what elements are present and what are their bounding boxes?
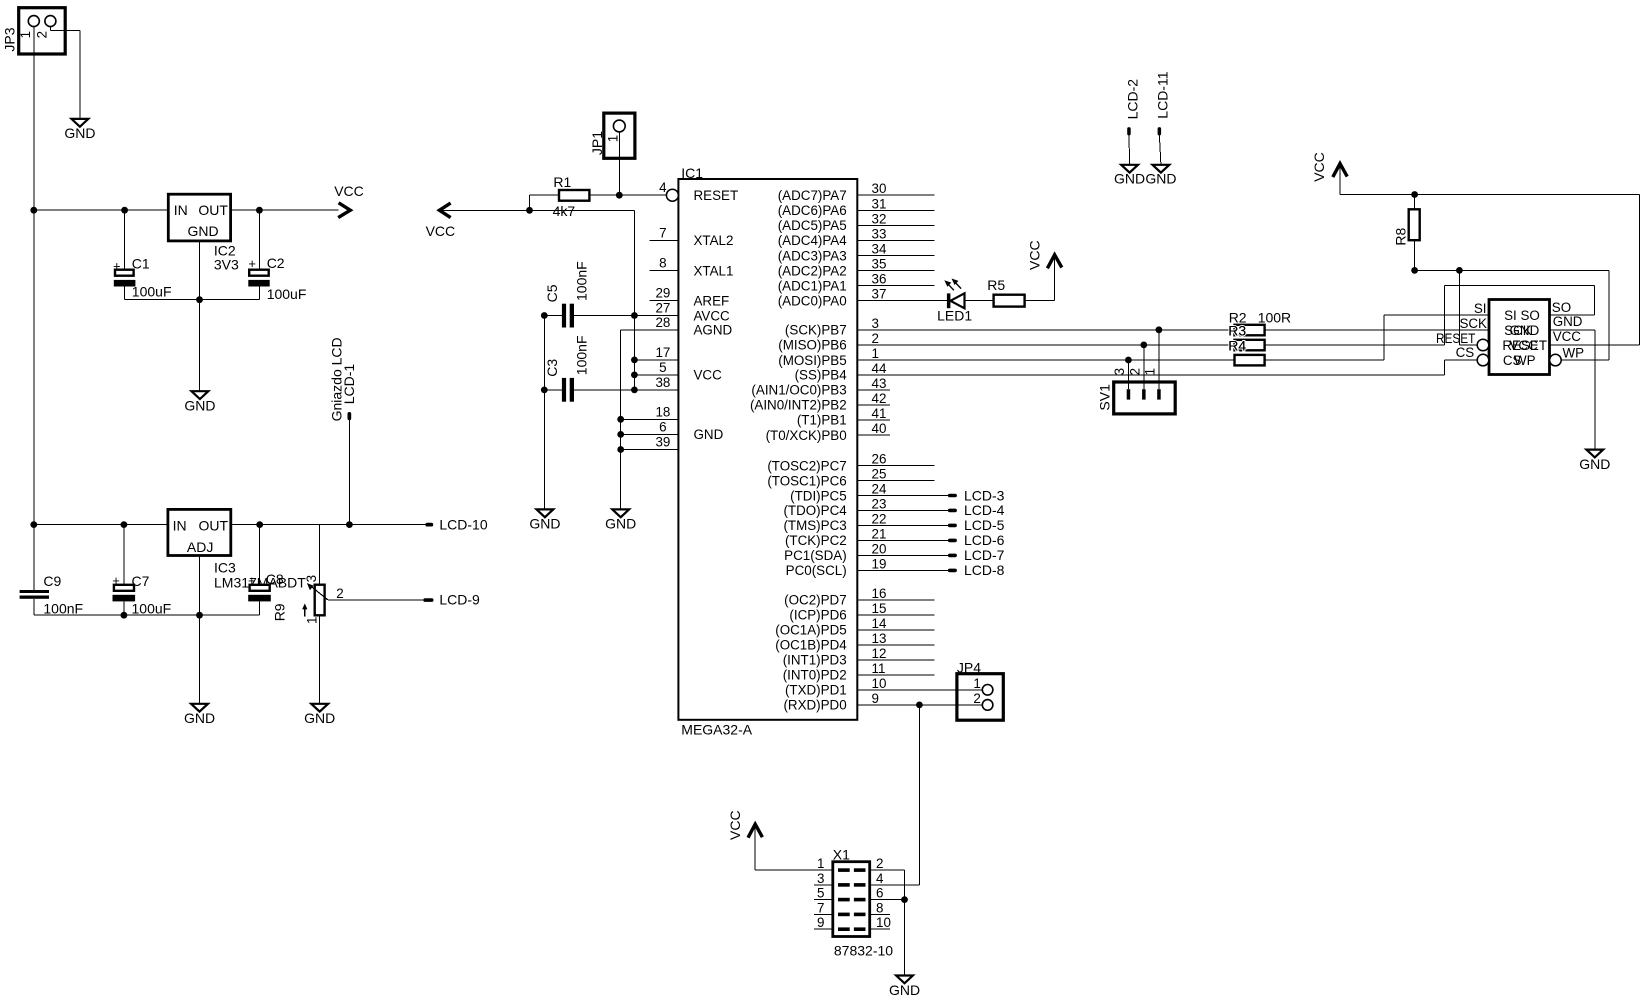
IC1 pin 33 (ADC4)PA4 xyxy=(778,226,935,248)
supply symbol VCC (left arrow near R1) xyxy=(426,203,456,239)
flash RESET bubble xyxy=(1477,339,1489,351)
connector X1 87832-10 xyxy=(817,847,893,959)
svg-text:33: 33 xyxy=(872,226,887,241)
ground below C3/C5 xyxy=(529,509,560,531)
svg-text:R1: R1 xyxy=(553,174,571,190)
capacitor C8 100uF xyxy=(248,571,284,601)
wire C7 bottom xyxy=(123,601,125,615)
svg-text:2: 2 xyxy=(336,586,343,601)
svg-text:9: 9 xyxy=(817,915,824,930)
ground below X1 xyxy=(889,976,920,998)
resistor R2 100R xyxy=(1229,310,1291,336)
svg-text:5: 5 xyxy=(817,886,824,901)
svg-text:LCD-11: LCD-11 xyxy=(1155,71,1171,118)
svg-text:R5: R5 xyxy=(987,277,1005,293)
flash memory U (overlapped symbols) xyxy=(1436,300,1584,375)
wire R5 to VCC xyxy=(1025,254,1055,300)
svg-text:19: 19 xyxy=(872,556,887,571)
wire SV1 pin1 xyxy=(1158,330,1160,389)
wire VCC to R1 junction xyxy=(440,209,635,211)
IC1 pin 7 XTAL2 xyxy=(649,225,733,248)
svg-text:SI SO: SI SO xyxy=(1504,308,1540,323)
node junction rail2 left xyxy=(30,521,37,528)
IC1 pin 37 (ADC0)PA0 xyxy=(778,287,947,309)
ground below LCD-2 xyxy=(1114,165,1145,187)
wire LCD-1 vertical xyxy=(348,420,350,525)
svg-text:XTAL2: XTAL2 xyxy=(694,233,734,248)
terminal LCD-4 xyxy=(948,502,1005,518)
node junction R8 top xyxy=(1411,191,1418,198)
IC1 pin 42 (AIN0/INT2)PB2 xyxy=(750,391,890,413)
wire C7 top xyxy=(123,525,125,585)
svg-text:100uF: 100uF xyxy=(132,284,172,300)
svg-text:(ICP)PD6: (ICP)PD6 xyxy=(789,608,846,623)
svg-text:23: 23 xyxy=(872,496,887,511)
wire LCD-11 to gnd xyxy=(1159,136,1161,165)
terminal LCD-8 xyxy=(948,562,1005,578)
svg-text:1: 1 xyxy=(872,346,879,361)
svg-text:(INT1)PD3: (INT1)PD3 xyxy=(783,653,847,668)
svg-text:31: 31 xyxy=(872,196,887,211)
svg-text:3: 3 xyxy=(304,575,319,582)
svg-text:35: 35 xyxy=(872,257,887,272)
connector JP3 xyxy=(2,8,66,54)
node junction R1 leg xyxy=(526,207,533,214)
svg-text:4: 4 xyxy=(659,180,667,195)
svg-text:(ADC2)PA2: (ADC2)PA2 xyxy=(778,263,847,278)
svg-text:(TMS)PC3: (TMS)PC3 xyxy=(783,518,846,533)
flash WP bubble xyxy=(1550,354,1562,366)
svg-text:100uF: 100uF xyxy=(267,286,307,302)
svg-text:AREF: AREF xyxy=(694,294,730,309)
svg-text:6: 6 xyxy=(659,419,666,434)
wire LCD-2 to gnd xyxy=(1128,136,1131,165)
IC1 pin 25 (TOSC1)PC6 xyxy=(767,467,934,489)
svg-text:24: 24 xyxy=(872,482,887,497)
svg-text:(SCK)PB7: (SCK)PB7 xyxy=(785,323,847,338)
svg-text:RESET: RESET xyxy=(1436,331,1475,346)
IC1 pin 28 AGND xyxy=(655,315,732,338)
svg-text:28: 28 xyxy=(655,315,670,330)
wire C8 bottom to rail3 xyxy=(259,601,261,615)
svg-text:X1: X1 xyxy=(833,847,850,863)
voltage regulator IC3 LM317MABDT xyxy=(168,509,306,590)
node junction GND pin6 xyxy=(617,431,624,438)
svg-text:LCD-4: LCD-4 xyxy=(964,502,1005,518)
svg-text:(ADC7)PA7: (ADC7)PA7 xyxy=(778,188,847,203)
svg-text:WP: WP xyxy=(1563,346,1585,361)
svg-text:SI: SI xyxy=(1474,301,1487,316)
svg-text:SV1: SV1 xyxy=(1096,384,1112,411)
capacitor C7 100uF xyxy=(112,573,171,617)
svg-text:41: 41 xyxy=(872,406,887,421)
svg-text:GND: GND xyxy=(304,710,335,726)
terminal LCD-7 xyxy=(948,547,1005,563)
node junction C3 left xyxy=(541,387,548,394)
IC1 pin 27 AVCC xyxy=(655,301,730,324)
svg-text:GND: GND xyxy=(1114,171,1145,187)
IC1 pin 2 (MISO)PB6 xyxy=(778,331,1234,353)
IC1 pin 24 (TDI)PC5 xyxy=(790,482,948,504)
svg-text:C8: C8 xyxy=(266,571,284,587)
svg-text:ADJ: ADJ xyxy=(187,539,213,555)
svg-text:AVCC: AVCC xyxy=(694,308,731,323)
svg-text:1: 1 xyxy=(605,135,620,142)
svg-text:C3: C3 xyxy=(544,359,560,377)
wire SCK (PB7) xyxy=(857,329,1234,331)
wire C1 bottom to gnd rail xyxy=(125,287,200,300)
wire X1 pin2 to gnd xyxy=(870,870,905,975)
svg-text:(OC1B)PD4: (OC1B)PD4 xyxy=(775,638,847,653)
IC1 pin 1 (MOSI)PB5 xyxy=(778,346,1234,368)
svg-text:25: 25 xyxy=(872,467,887,482)
IC1 pin 35 (ADC2)PA2 xyxy=(778,257,935,279)
svg-text:22: 22 xyxy=(872,511,887,526)
svg-text:RESET: RESET xyxy=(694,188,739,203)
node junction AVCC xyxy=(631,312,638,319)
terminal LCD-5 xyxy=(948,517,1005,533)
wire VCC top rail xyxy=(1340,195,1639,346)
svg-text:IC3: IC3 xyxy=(214,559,236,575)
svg-text:(ADC5)PA5: (ADC5)PA5 xyxy=(778,218,847,233)
svg-text:LCD-9: LCD-9 xyxy=(439,592,480,608)
svg-text:VCC: VCC xyxy=(1026,240,1042,270)
svg-text:LCD-6: LCD-6 xyxy=(964,532,1005,548)
svg-text:(TXD)PD1: (TXD)PD1 xyxy=(785,683,847,698)
svg-text:GND: GND xyxy=(188,223,219,239)
svg-text:(TOSC1)PC6: (TOSC1)PC6 xyxy=(767,473,846,488)
resistor R1 4k7 xyxy=(553,174,590,219)
IC1 pin 38 (left) xyxy=(655,375,670,390)
wire RESET pullup xyxy=(1459,270,1477,345)
svg-text:C5: C5 xyxy=(544,284,560,302)
svg-text:GND: GND xyxy=(1553,314,1583,329)
voltage regulator IC2 3V3 xyxy=(168,194,239,273)
svg-text:IN: IN xyxy=(174,202,188,218)
svg-text:7: 7 xyxy=(659,225,666,240)
svg-text:(T0/XCK)PB0: (T0/XCK)PB0 xyxy=(766,428,847,443)
wire X1 pin6 xyxy=(870,899,905,901)
IC1 pin 22 (TMS)PC3 xyxy=(783,511,947,533)
terminal LCD-9 xyxy=(423,592,480,608)
IC1 pin 36 (ADC1)PA1 xyxy=(778,272,935,294)
wire JP1 down to RESET xyxy=(618,132,620,195)
svg-text:GND: GND xyxy=(605,516,636,532)
node junction LCD-1/rail2 xyxy=(346,521,353,528)
svg-text:VCC: VCC xyxy=(1510,338,1539,353)
svg-text:GND: GND xyxy=(1579,456,1610,472)
wire JP3 pin1 down to VCC-in rail xyxy=(33,27,35,210)
svg-text:LCD-8: LCD-8 xyxy=(964,562,1005,578)
IC1 pin 12 (INT1)PD3 xyxy=(783,646,935,668)
node junction JP1/RESET xyxy=(616,192,623,199)
svg-text:3V3: 3V3 xyxy=(214,257,239,273)
node junction SV1-1/SCK xyxy=(1156,326,1163,333)
svg-text:21: 21 xyxy=(872,526,887,541)
terminal LCD-11 xyxy=(1155,71,1171,135)
svg-text:R4: R4 xyxy=(1228,338,1246,354)
wire C8 top xyxy=(259,525,261,585)
svg-text:R3: R3 xyxy=(1228,322,1246,338)
svg-text:VCC: VCC xyxy=(694,368,723,383)
svg-text:GND: GND xyxy=(64,125,95,141)
svg-text:JP1: JP1 xyxy=(589,131,605,155)
microcontroller IC1 MEGA32-A xyxy=(678,165,857,737)
node junction RXD/X1 xyxy=(916,702,923,709)
svg-text:2: 2 xyxy=(872,331,879,346)
IC1 pin 5 VCC xyxy=(634,360,722,383)
svg-text:Gniazdo LCD: Gniazdo LCD xyxy=(328,337,344,421)
svg-text:GND: GND xyxy=(529,516,560,532)
ground below R9 xyxy=(304,704,335,726)
svg-text:39: 39 xyxy=(655,435,670,450)
svg-text:(OC1A)PD5: (OC1A)PD5 xyxy=(775,623,846,638)
IC1 pin 9 (RXD)PD0 xyxy=(783,691,982,713)
IC1 pin 6 GND xyxy=(621,419,724,442)
capacitor C3 100nF xyxy=(544,335,678,401)
IC1 pin 13 (OC1B)PD4 xyxy=(775,631,934,653)
svg-text:12: 12 xyxy=(872,646,887,661)
svg-text:AGND: AGND xyxy=(694,323,733,338)
svg-text:(OC2)PD7: (OC2)PD7 xyxy=(784,593,847,608)
svg-text:14: 14 xyxy=(872,616,887,631)
svg-text:LCD-7: LCD-7 xyxy=(964,547,1005,563)
svg-text:7: 7 xyxy=(817,900,824,915)
svg-text:SO: SO xyxy=(1552,300,1571,315)
wire R9 wiper to LCD-9 xyxy=(328,599,423,601)
svg-text:100nF: 100nF xyxy=(574,335,590,375)
node junction VCC pin38 xyxy=(631,387,638,394)
svg-text:2: 2 xyxy=(1128,368,1143,375)
svg-text:(MOSI)PB5: (MOSI)PB5 xyxy=(778,353,846,368)
wire VCC vertical to AVCC/VCC pins xyxy=(633,210,635,390)
svg-text:(TDO)PC4: (TDO)PC4 xyxy=(783,503,847,518)
svg-text:CS: CS xyxy=(1456,345,1475,360)
svg-text:40: 40 xyxy=(872,421,887,436)
svg-text:87832-10: 87832-10 xyxy=(834,943,893,959)
svg-text:IC1: IC1 xyxy=(681,165,703,181)
svg-text:2: 2 xyxy=(973,691,980,706)
svg-text:2: 2 xyxy=(876,856,883,871)
wire SS to CS xyxy=(1445,360,1478,375)
IC1 pin 40 (T0/XCK)PB0 xyxy=(766,421,890,443)
wire SV1 pin2 xyxy=(1143,345,1145,389)
svg-text:29: 29 xyxy=(655,286,670,301)
svg-text:3: 3 xyxy=(817,871,824,886)
svg-text:(ADC4)PA4: (ADC4)PA4 xyxy=(778,233,848,248)
svg-text:100R: 100R xyxy=(1258,310,1291,326)
node junction ADJ/rail3 xyxy=(196,612,203,619)
resistor R5 xyxy=(987,277,1024,307)
connector JP4 xyxy=(957,659,1003,720)
svg-text:30: 30 xyxy=(872,181,887,196)
node junction VCC pin5 xyxy=(631,372,638,379)
svg-text:LCD-3: LCD-3 xyxy=(964,487,1005,503)
svg-text:1: 1 xyxy=(18,31,33,38)
wire gnd rail to C2 bottom xyxy=(200,287,260,300)
wire JP3 pin1 down to LCD rail xyxy=(33,210,35,524)
supply symbol VCC (X1) xyxy=(727,810,762,870)
node junction VCC pin17 xyxy=(631,357,638,364)
svg-text:1: 1 xyxy=(305,617,320,624)
svg-text:10: 10 xyxy=(872,676,887,691)
svg-text:GND: GND xyxy=(1510,323,1540,338)
svg-text:IN: IN xyxy=(173,517,187,533)
terminal LCD-10 xyxy=(425,517,487,533)
IC1 pin 20 PC1(SDA) xyxy=(784,541,948,563)
IC1 pin 10 (TXD)PD1 xyxy=(785,676,982,698)
wire C9 top xyxy=(33,525,35,590)
terminal LCD-2 xyxy=(1124,79,1140,136)
IC1 pin 4 RESET xyxy=(659,180,738,203)
wire R8 pullup rail xyxy=(1415,270,1609,360)
svg-text:R9: R9 xyxy=(272,603,288,621)
node junction RESET branch xyxy=(1456,267,1463,274)
IC1 pin 41 (T1)PB1 xyxy=(797,406,890,428)
svg-text:(ADC0)PA0: (ADC0)PA0 xyxy=(778,294,847,309)
node junction SV1-3/MOSI xyxy=(1125,357,1132,364)
ground below JP3 xyxy=(64,119,95,141)
svg-text:4k7: 4k7 xyxy=(553,203,576,219)
node junction C8/rail2 xyxy=(256,521,263,528)
wire rail2 down to R9 xyxy=(319,525,321,585)
ground below IC2 xyxy=(184,391,215,413)
svg-text:(SS)PB4: (SS)PB4 xyxy=(795,368,848,383)
wire C1 top xyxy=(124,210,126,270)
svg-text:(TOSC2)PC7: (TOSC2)PC7 xyxy=(767,458,846,473)
svg-text:JP4: JP4 xyxy=(957,659,981,675)
svg-text:4: 4 xyxy=(876,871,884,886)
svg-text:MEGA32-A: MEGA32-A xyxy=(681,722,752,738)
svg-text:WP: WP xyxy=(1514,353,1536,368)
IC1 pin 23 (TDO)PC4 xyxy=(783,496,947,518)
svg-text:44: 44 xyxy=(872,361,887,376)
wire C5-C3 vertical xyxy=(543,316,545,390)
IC1 pin 16 (OC2)PD7 xyxy=(784,586,934,608)
svg-text:100nF: 100nF xyxy=(574,261,590,301)
svg-text:43: 43 xyxy=(872,376,887,391)
IC1 pin 11 (INT0)PD2 xyxy=(783,661,935,683)
svg-text:VCC: VCC xyxy=(1553,329,1582,344)
wire MOSI (PB5) xyxy=(857,359,1234,361)
svg-text:10: 10 xyxy=(876,915,891,930)
node junction X1 pin6/gnd xyxy=(901,896,908,903)
IC1 pin 34 (ADC3)PA3 xyxy=(778,242,935,264)
svg-text:XTAL1: XTAL1 xyxy=(694,263,734,278)
wire IC2 OUT to VCC arrow xyxy=(231,209,339,211)
svg-text:(TCK)PC2: (TCK)PC2 xyxy=(785,533,847,548)
svg-text:GND: GND xyxy=(184,398,215,414)
svg-text:1: 1 xyxy=(1143,368,1158,375)
IC1 pin 18 (left) xyxy=(621,404,679,419)
node junction C7/rail2 xyxy=(121,521,128,528)
node junction C1/rail1 xyxy=(121,207,128,214)
node junction JP3/rail1 xyxy=(30,207,37,214)
svg-text:100uF: 100uF xyxy=(132,601,172,617)
wire JP3 pin2 to GND xyxy=(50,27,80,119)
wire RXD down to X1 pin4 xyxy=(870,705,920,885)
svg-text:36: 36 xyxy=(872,272,887,287)
ground below LCD-11 xyxy=(1145,165,1176,187)
resistor R4 xyxy=(1228,338,1264,366)
wire SCK to flash xyxy=(1265,329,1489,331)
svg-text:VCC: VCC xyxy=(426,223,456,239)
svg-text:(RXD)PD0: (RXD)PD0 xyxy=(783,698,846,713)
wire C9 bottom to rail3 xyxy=(34,599,124,615)
ground below flash xyxy=(1579,450,1610,472)
wire MOSI to SI xyxy=(1265,315,1489,360)
trimmer R9 xyxy=(272,575,344,624)
svg-text:6: 6 xyxy=(876,886,883,901)
IC1 pin 32 (ADC5)PA5 xyxy=(778,211,935,233)
svg-text:32: 32 xyxy=(872,211,887,226)
X1 left stubs xyxy=(814,885,833,929)
svg-text:C2: C2 xyxy=(267,255,285,271)
svg-text:(ADC1)PA1: (ADC1)PA1 xyxy=(778,278,847,293)
wire R9 bottom to ground xyxy=(319,615,321,704)
IC1 RESET bubble xyxy=(666,189,678,201)
terminal LCD-6 xyxy=(948,532,1005,548)
svg-text:OUT: OUT xyxy=(198,202,228,218)
node junction SV1-2/MISO xyxy=(1140,342,1147,349)
ground below IC3 ADJ xyxy=(184,704,215,726)
svg-text:(MISO)PB6: (MISO)PB6 xyxy=(778,338,846,353)
IC1 pin 3 (SCK)PB7 xyxy=(785,316,1235,338)
svg-text:8: 8 xyxy=(659,256,666,271)
capacitor C2 100uF xyxy=(248,255,306,302)
wire flash GND pin xyxy=(1550,330,1595,450)
IC1 pin 21 (TCK)PC2 xyxy=(785,526,948,548)
IC1 pin 26 (TOSC2)PC7 xyxy=(767,452,934,474)
svg-text:2: 2 xyxy=(34,31,49,38)
wire R1 left leg xyxy=(530,195,560,210)
node junction C7/rail3 xyxy=(121,612,128,619)
capacitor C9 100nF xyxy=(20,573,84,617)
node junction C2/rail1 xyxy=(256,207,263,214)
svg-text:3: 3 xyxy=(872,316,879,331)
svg-text:3: 3 xyxy=(1112,368,1127,375)
svg-text:1: 1 xyxy=(817,856,824,871)
IC1 pin 14 (OC1A)PD5 xyxy=(775,616,934,638)
svg-text:PC1(SDA): PC1(SDA) xyxy=(784,548,847,563)
wire VCC to X1 pin1 xyxy=(755,869,833,871)
resistor R8 xyxy=(1392,195,1419,271)
svg-text:100nF: 100nF xyxy=(43,601,83,617)
svg-text:SCK: SCK xyxy=(1459,316,1487,331)
svg-text:LCD-10: LCD-10 xyxy=(439,517,487,533)
terminal LCD-1 (Gniazdo LCD) xyxy=(328,337,357,421)
svg-text:42: 42 xyxy=(872,391,887,406)
terminal LCD-3 xyxy=(948,487,1005,503)
wire SV1 pin3 xyxy=(1127,360,1129,389)
svg-text:LCD-5: LCD-5 xyxy=(964,517,1005,533)
svg-text:(ADC3)PA3: (ADC3)PA3 xyxy=(778,248,847,263)
wire SS (PB4) xyxy=(857,374,1444,376)
svg-text:OUT: OUT xyxy=(198,517,228,533)
svg-text:1: 1 xyxy=(973,676,980,691)
wire IC2 GND down to ground xyxy=(199,300,201,392)
IC1 pin 29 AREF xyxy=(649,286,729,309)
IC1 pin 17 (left) xyxy=(634,345,678,360)
supply symbol VCC (3V3 rail, right arrow) xyxy=(334,183,364,217)
IC1 pin 39 (left) xyxy=(621,435,679,450)
wire rail2 to IC3 IN xyxy=(34,524,168,526)
ground below AGND xyxy=(605,509,636,531)
supply symbol VCC (above R5) xyxy=(1026,240,1062,270)
node junction R8 bottom xyxy=(1411,267,1418,274)
node junction GND pin39 xyxy=(617,446,624,453)
wire C3 down to ground xyxy=(543,390,545,510)
